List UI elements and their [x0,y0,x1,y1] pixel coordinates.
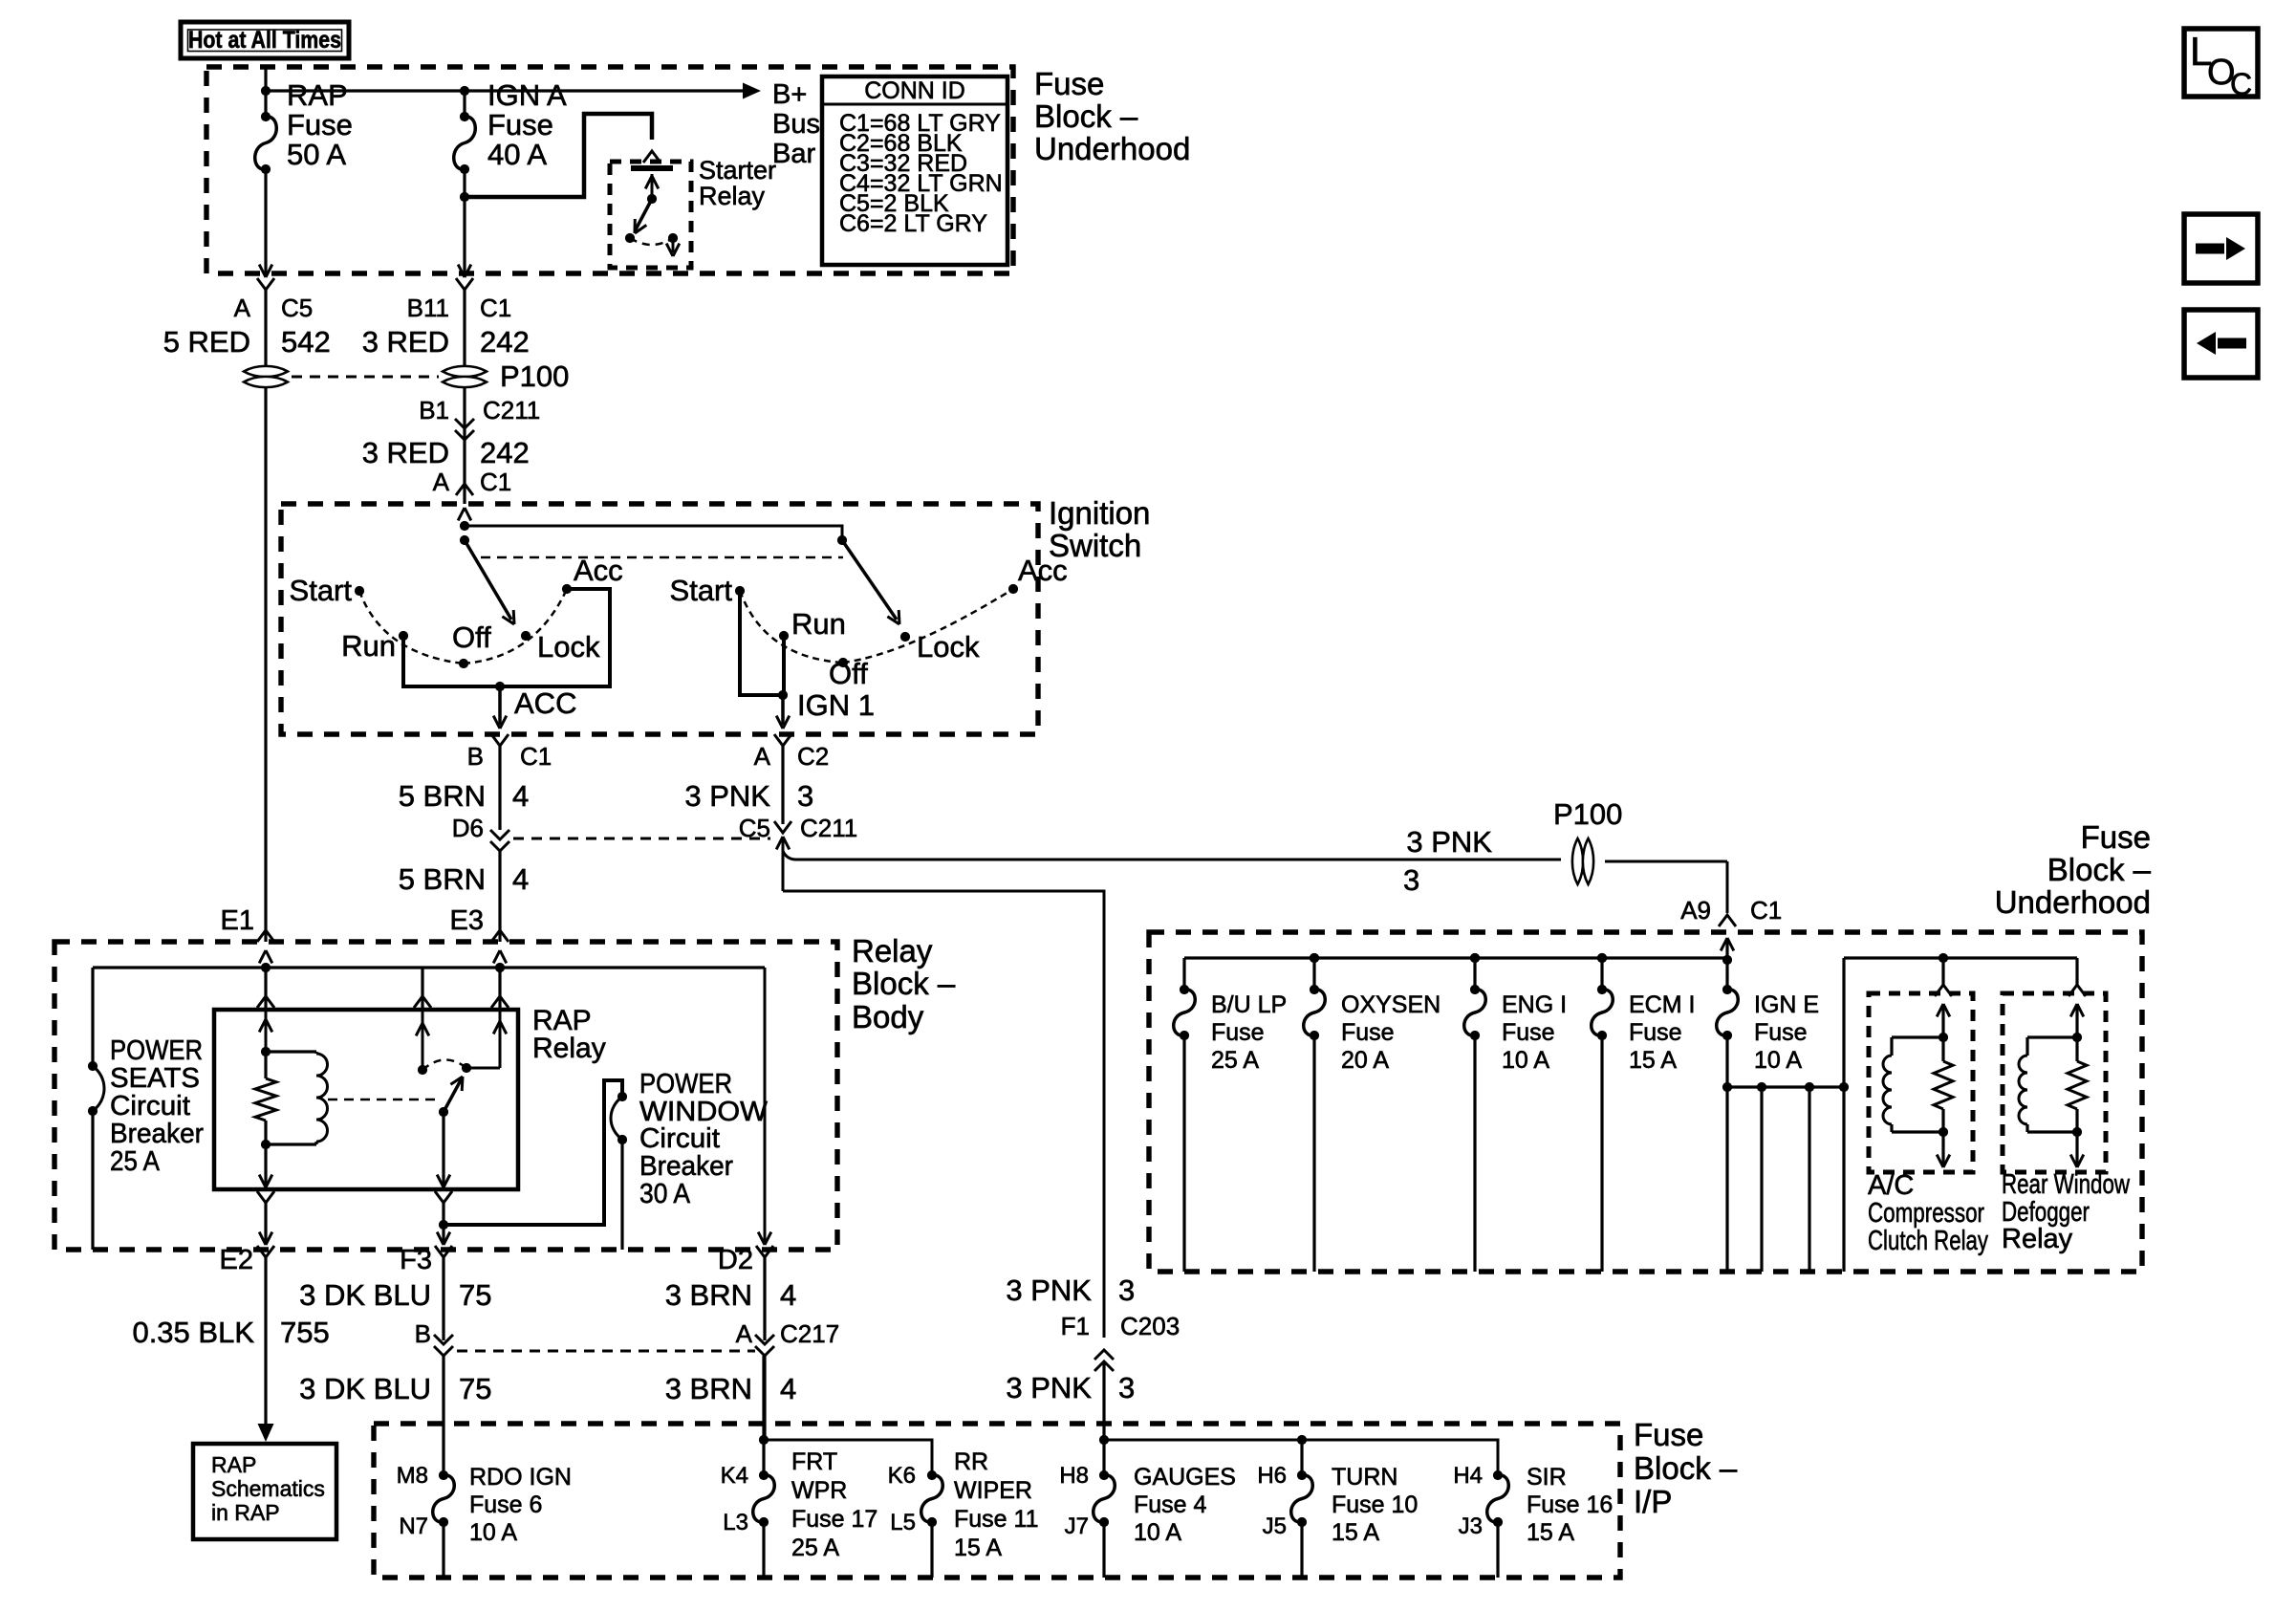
svg-text:D6: D6 [452,814,484,842]
svg-text:3 DK BLU: 3 DK BLU [299,1372,431,1405]
svg-text:ECM I: ECM I [1629,991,1695,1018]
svg-text:I/P: I/P [1634,1484,1672,1519]
svg-text:A/C: A/C [1868,1170,1914,1201]
svg-text:242: 242 [480,325,530,359]
svg-text:WIPER: WIPER [954,1477,1032,1504]
svg-text:L3: L3 [723,1510,748,1535]
svg-text:C6=2 LT GRY: C6=2 LT GRY [839,210,987,237]
svg-text:ENG I: ENG I [1502,991,1567,1018]
svg-text:RR: RR [954,1448,988,1475]
svg-text:A9: A9 [1680,896,1711,925]
svg-text:F3: F3 [400,1245,432,1275]
svg-text:C1: C1 [520,742,552,771]
svg-text:Fuse 17: Fuse 17 [791,1506,877,1533]
svg-text:Lock: Lock [917,630,980,664]
svg-text:Block –: Block – [852,966,956,1001]
svg-text:B+: B+ [772,79,807,110]
svg-text:C203: C203 [1120,1312,1180,1340]
svg-text:E2: E2 [220,1245,253,1275]
svg-text:P100: P100 [1553,797,1622,831]
svg-text:C2: C2 [797,742,829,771]
svg-text:Compressor: Compressor [1868,1198,1984,1229]
svg-text:C5: C5 [281,294,313,322]
svg-text:Acc: Acc [574,554,623,587]
svg-text:242: 242 [480,436,530,469]
svg-text:Block –: Block – [1034,98,1138,134]
svg-text:C211: C211 [483,396,540,425]
svg-text:3 RED: 3 RED [362,325,449,359]
svg-text:3 BRN: 3 BRN [665,1372,752,1405]
svg-text:3 PNK: 3 PNK [1006,1371,1092,1404]
svg-text:5 RED: 5 RED [163,325,250,359]
svg-text:542: 542 [281,325,331,359]
svg-text:SIR: SIR [1527,1464,1567,1491]
svg-text:B/U LP: B/U LP [1211,991,1287,1018]
svg-text:Acc: Acc [1018,554,1068,587]
svg-text:C: C [2230,67,2252,101]
svg-text:Fuse: Fuse [1754,1019,1808,1046]
svg-text:Fuse: Fuse [2081,819,2151,855]
svg-text:75: 75 [459,1372,491,1405]
svg-text:Lock: Lock [537,630,600,664]
svg-text:ACC: ACC [514,686,576,720]
svg-text:4: 4 [780,1278,796,1312]
svg-text:TURN: TURN [1332,1464,1397,1491]
svg-text:L5: L5 [890,1510,916,1535]
svg-text:Relay: Relay [532,1033,606,1064]
svg-text:3: 3 [1118,1371,1135,1404]
svg-text:H8: H8 [1059,1463,1089,1489]
svg-text:J5: J5 [1263,1513,1287,1539]
svg-text:4: 4 [512,779,529,813]
svg-text:K6: K6 [888,1463,916,1489]
svg-text:3: 3 [797,779,813,813]
svg-text:Fuse: Fuse [1341,1019,1395,1046]
svg-text:POWER: POWER [639,1069,732,1099]
svg-text:D2: D2 [718,1245,753,1275]
svg-text:SEATS: SEATS [110,1063,200,1094]
svg-text:GAUGES: GAUGES [1134,1464,1236,1491]
svg-text:75: 75 [459,1278,491,1312]
svg-text:Ignition: Ignition [1049,495,1150,531]
svg-text:A: A [234,294,251,322]
svg-text:25 A: 25 A [1211,1047,1259,1074]
svg-text:755: 755 [280,1316,330,1349]
svg-text:10 A: 10 A [1502,1047,1549,1074]
svg-text:P100: P100 [500,359,569,393]
svg-text:Hot at All Times: Hot at All Times [188,27,341,54]
svg-text:C211: C211 [800,814,857,842]
svg-text:C1: C1 [1750,896,1782,925]
svg-text:A: A [736,1319,753,1348]
svg-text:C217: C217 [780,1319,839,1348]
svg-text:Circuit: Circuit [110,1091,190,1121]
svg-text:E3: E3 [450,905,484,936]
svg-text:C1: C1 [480,468,511,496]
svg-text:Block –: Block – [2047,852,2152,887]
svg-text:15 A: 15 A [1629,1047,1677,1074]
svg-text:Schematics: Schematics [211,1476,325,1501]
svg-text:C1: C1 [480,294,511,322]
svg-text:Block –: Block – [1634,1450,1738,1486]
svg-text:J3: J3 [1459,1513,1483,1539]
svg-text:OXYSEN: OXYSEN [1341,991,1440,1018]
svg-text:M8: M8 [397,1463,428,1489]
svg-text:10 A: 10 A [1134,1519,1181,1546]
svg-text:Clutch Relay: Clutch Relay [1868,1226,1988,1256]
svg-text:Off: Off [829,657,868,690]
svg-text:Fuse 11: Fuse 11 [954,1506,1038,1533]
svg-text:3: 3 [1118,1274,1135,1307]
svg-text:RAP: RAP [211,1452,256,1477]
svg-text:Relay: Relay [2002,1224,2073,1254]
svg-text:A: A [754,742,771,771]
svg-text:25 A: 25 A [110,1146,161,1177]
svg-text:3 BRN: 3 BRN [665,1278,752,1312]
svg-text:K4: K4 [721,1463,748,1489]
svg-text:Underhood: Underhood [1995,884,2151,920]
svg-text:Relay: Relay [699,182,766,210]
svg-text:4: 4 [780,1372,796,1405]
svg-text:N7: N7 [399,1513,428,1539]
svg-text:Off: Off [452,620,491,654]
svg-text:Fuse: Fuse [1634,1417,1703,1452]
svg-text:4: 4 [512,862,529,896]
svg-text:0.35 BLK: 0.35 BLK [132,1316,254,1349]
svg-text:50 A: 50 A [287,138,346,171]
svg-text:J7: J7 [1065,1513,1089,1539]
svg-text:15 A: 15 A [1332,1519,1379,1546]
svg-text:5 BRN: 5 BRN [399,862,486,896]
svg-text:25 A: 25 A [791,1535,839,1561]
svg-text:15 A: 15 A [1527,1519,1574,1546]
svg-text:B1: B1 [419,396,449,425]
svg-text:FRT: FRT [791,1448,837,1475]
svg-text:Start: Start [670,574,733,607]
svg-text:IGN E: IGN E [1754,991,1819,1018]
svg-text:E1: E1 [221,905,254,936]
svg-text:3 RED: 3 RED [362,436,449,469]
svg-text:Fuse 6: Fuse 6 [469,1491,542,1518]
svg-text:Body: Body [852,999,924,1034]
svg-text:Circuit: Circuit [639,1123,720,1154]
svg-text:20 A: 20 A [1341,1047,1389,1074]
svg-text:Breaker: Breaker [110,1119,204,1149]
svg-text:Fuse: Fuse [287,108,353,142]
svg-text:Relay: Relay [852,933,933,969]
svg-text:B: B [467,742,484,771]
svg-text:H4: H4 [1453,1463,1483,1489]
svg-text:Starter: Starter [699,156,776,185]
svg-text:30 A: 30 A [639,1179,691,1209]
svg-text:Fuse 4: Fuse 4 [1134,1491,1207,1518]
svg-text:3 PNK: 3 PNK [1406,825,1492,859]
svg-text:Run: Run [791,607,846,641]
svg-text:40 A: 40 A [487,138,547,171]
svg-text:Fuse: Fuse [1034,66,1104,101]
svg-text:Fuse: Fuse [1502,1019,1555,1046]
svg-text:Bus: Bus [772,109,820,140]
svg-text:CONN ID: CONN ID [864,77,965,104]
svg-text:Fuse: Fuse [1211,1019,1265,1046]
svg-text:Run: Run [341,629,396,663]
svg-text:Fuse 10: Fuse 10 [1332,1491,1418,1518]
svg-text:3 DK BLU: 3 DK BLU [299,1278,431,1312]
svg-text:Underhood: Underhood [1034,131,1190,166]
svg-text:in RAP: in RAP [211,1500,280,1525]
svg-text:POWER: POWER [110,1035,203,1066]
svg-text:WPR: WPR [791,1477,847,1504]
svg-text:RDO IGN: RDO IGN [469,1464,572,1491]
svg-text:3: 3 [1403,863,1419,897]
svg-text:RAP: RAP [287,78,348,112]
svg-text:Fuse: Fuse [1629,1019,1682,1046]
svg-text:10 A: 10 A [469,1519,517,1546]
svg-text:B11: B11 [407,294,449,322]
svg-text:IGN A: IGN A [487,78,567,112]
svg-text:Fuse: Fuse [487,108,553,142]
svg-text:Breaker: Breaker [639,1151,733,1182]
svg-text:H6: H6 [1257,1463,1287,1489]
svg-text:A: A [433,468,450,496]
svg-text:10 A: 10 A [1754,1047,1802,1074]
svg-text:5 BRN: 5 BRN [399,779,486,813]
svg-text:IGN 1: IGN 1 [797,688,875,722]
svg-text:B: B [415,1319,431,1348]
svg-text:Bar: Bar [772,139,815,169]
svg-text:3 PNK: 3 PNK [1006,1274,1092,1307]
svg-text:Start: Start [290,574,353,607]
svg-text:Fuse 16: Fuse 16 [1527,1491,1613,1518]
svg-text:3 PNK: 3 PNK [684,779,770,813]
svg-text:F1: F1 [1061,1312,1090,1340]
svg-text:Rear Window: Rear Window [2002,1169,2131,1200]
svg-text:15 A: 15 A [954,1535,1002,1561]
